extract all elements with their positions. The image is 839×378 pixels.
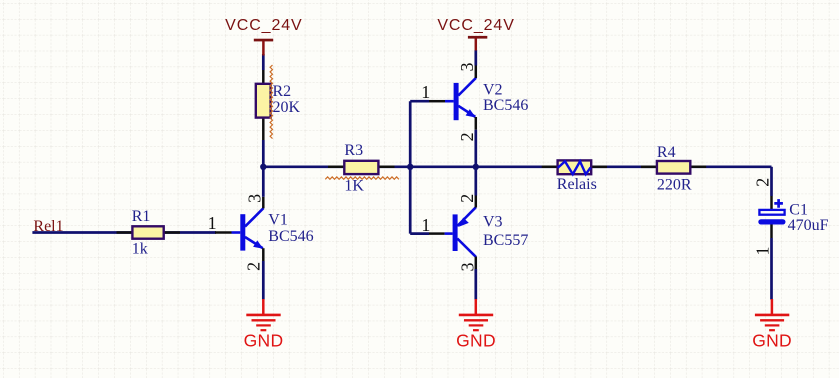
GND bar 2 (760, 319, 784, 321)
wire V3 emitter to bus junction (474, 167, 477, 196)
R1 pin 1 (117, 231, 133, 234)
Relais body (558, 160, 592, 174)
ground GND under V1 (244, 299, 284, 350)
V1 collector pin (262, 197, 265, 209)
V2 collector line (458, 78, 476, 96)
GND bar 2 (252, 319, 276, 321)
GND bar 3 (256, 324, 271, 326)
resistor R4 (641, 144, 706, 193)
VCC_24V stem (262, 41, 265, 56)
svg-text:1: 1 (208, 213, 217, 233)
R3 pin 1 (328, 166, 344, 169)
wire V1 collector to bus junction (262, 166, 265, 197)
C1 pin 2 (770, 196, 773, 209)
svg-text:3: 3 (244, 194, 264, 203)
GND bar 4 (261, 329, 267, 331)
GND bar 3 (765, 324, 780, 326)
V3 base pin (429, 232, 445, 235)
svg-text:Rel1: Rel1 (33, 218, 63, 235)
net label Rel1 (33, 218, 63, 235)
V3 emitter arrow (459, 218, 469, 227)
V3 emitter line (457, 207, 476, 226)
svg-text:BC557: BC557 (483, 232, 528, 249)
svg-text:1: 1 (753, 247, 773, 256)
svg-text:1K: 1K (344, 177, 364, 194)
VCC_24V stem (475, 38, 478, 50)
transistor V3 BC557 (421, 194, 528, 272)
svg-text:C1: C1 (789, 201, 808, 218)
R2 pin 1 (262, 70, 265, 84)
V2 base bar (454, 83, 459, 120)
V3 collector line (457, 239, 476, 258)
wire main bus net (263, 165, 771, 168)
GND bar 1 (459, 314, 493, 317)
capacitor C1 470uF (752, 178, 828, 256)
svg-text:R1: R1 (132, 208, 151, 225)
svg-text:2: 2 (752, 178, 772, 187)
wire V2 collector to VCC (474, 50, 477, 66)
resistor R3 (328, 142, 395, 194)
wire base column vertical V2 base to V3 base (409, 101, 412, 233)
R4 pin 2 (690, 166, 706, 169)
svg-text:V1: V1 (268, 211, 288, 228)
wire R2 to bus junction (262, 140, 265, 167)
svg-text:1: 1 (421, 82, 430, 102)
GND bar 4 (473, 329, 479, 331)
V2 emitter line (458, 106, 475, 117)
svg-text:BC546: BC546 (268, 228, 313, 245)
V3 emitter pin (475, 196, 478, 208)
V1 emitter pin (262, 248, 265, 261)
svg-text:GND: GND (244, 330, 284, 350)
C1 plus sign (774, 199, 783, 208)
relay coil Relais (542, 160, 607, 192)
GND bar 4 (769, 329, 775, 331)
V3 collector pin (475, 257, 478, 269)
C1 positive plate (759, 210, 784, 215)
V1 base bar (240, 214, 245, 250)
GND bar 1 (246, 314, 280, 317)
wire V1 emitter to ground (262, 261, 265, 300)
svg-text:Relais: Relais (557, 176, 597, 193)
R4 body (657, 161, 690, 174)
GND bar 2 (464, 319, 488, 321)
svg-text:2: 2 (457, 132, 477, 141)
transistor V1 BC546 (208, 194, 314, 271)
R1 pin 2 (164, 231, 180, 234)
svg-text:1k: 1k (132, 241, 148, 258)
svg-text:R2: R2 (273, 83, 292, 100)
node junction at R2/V1 column (260, 164, 266, 170)
VCC_24V bar (254, 39, 273, 42)
GND stem (262, 299, 265, 315)
V1 base pin (215, 231, 232, 234)
V1 emitter line (245, 237, 263, 248)
V3 base bar (453, 214, 458, 251)
svg-text:220R: 220R (657, 176, 692, 193)
Relais coil zigzag (558, 161, 591, 174)
svg-text:R4: R4 (657, 144, 676, 161)
node junction at emitter column (473, 164, 479, 170)
wire net Rel1 from left edge to V1 base (32, 231, 216, 234)
R3 body (344, 161, 378, 174)
wire bus corner down to C1 (770, 167, 773, 196)
ground GND under C1 (752, 299, 792, 350)
V1 collector line (245, 208, 264, 227)
C1 pin 1 (770, 225, 773, 239)
ground GND under V3 (456, 299, 496, 350)
V2 collector pin (475, 66, 478, 79)
power port VCC_24V right (437, 17, 514, 50)
R1 body (132, 226, 163, 238)
error squiggle on R3 net (325, 177, 399, 179)
svg-text:2: 2 (457, 194, 477, 203)
svg-text:2: 2 (244, 262, 264, 271)
GND stem (771, 299, 774, 315)
R4 pin 1 (641, 166, 657, 169)
svg-text:V2: V2 (483, 82, 503, 99)
error squiggle on R2 net (270, 65, 272, 139)
wire V3 base horizontal (410, 232, 429, 235)
svg-text:GND: GND (456, 330, 496, 350)
svg-text:20K: 20K (273, 99, 301, 116)
power port VCC_24V left (225, 17, 302, 55)
V2 emitter arrow (466, 109, 476, 117)
svg-text:V3: V3 (483, 214, 503, 231)
R2 pin 1 wire from VCC (262, 54, 265, 70)
svg-text:1: 1 (421, 215, 430, 235)
GND stem (475, 299, 478, 315)
resistor R2 (256, 54, 301, 140)
svg-text:3: 3 (457, 63, 477, 72)
svg-text:470uF: 470uF (788, 217, 829, 234)
Relais pin 2 (591, 166, 607, 169)
svg-text:R3: R3 (344, 142, 363, 159)
R2 body (256, 84, 271, 118)
R3 pin 2 (378, 166, 394, 169)
svg-text:GND: GND (752, 330, 792, 350)
svg-text:VCC_24V: VCC_24V (225, 17, 302, 34)
C1 negative plate (758, 219, 785, 224)
V2 emitter pin (475, 117, 478, 130)
wire V2 emitter to bus junction (474, 130, 477, 167)
R2 pin 2 (262, 118, 265, 140)
Relais pin 1 (542, 166, 558, 169)
VCC_24V bar (468, 36, 487, 39)
GND bar 1 (755, 314, 789, 317)
svg-text:BC546: BC546 (483, 97, 528, 114)
transistor V2 BC546 (421, 63, 528, 142)
GND bar 3 (469, 324, 484, 326)
svg-text:VCC_24V: VCC_24V (437, 17, 514, 34)
svg-text:3: 3 (457, 263, 477, 272)
wire V2 base horizontal (410, 100, 429, 103)
wire V3 collector to ground (474, 269, 477, 300)
node junction at base column (407, 164, 413, 170)
wire C1 to ground (770, 238, 773, 300)
resistor R1 (117, 208, 181, 257)
V1 emitter arrow (253, 240, 263, 248)
V2 base pin (429, 100, 445, 103)
